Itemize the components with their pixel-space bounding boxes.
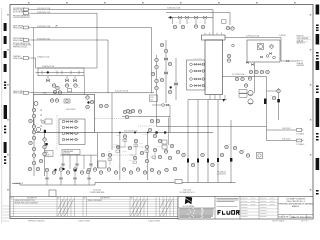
left instrument chain pipe 2	[44, 133, 46, 176]
chain box cluster	[42, 119, 52, 124]
revision table row lines	[10, 199, 178, 213]
launder weir ticks	[205, 33, 222, 36]
center cluster connect lines	[110, 138, 155, 165]
sheet text below	[272, 219, 309, 222]
manifold A small box	[68, 89, 72, 92]
wire vessel A inlet drop	[33, 28, 35, 95]
column cell CL-1 vessel	[205, 40, 223, 95]
scale and dwg number text	[279, 216, 313, 219]
manifold A drops	[48, 76, 75, 80]
fluor daniel emblem	[185, 197, 192, 204]
solid instrument square	[45, 143, 47, 145]
wire column feed drop	[212, 10, 214, 36]
svg-text:ISSUED FOR CONSTRUCTION: ISSUED FOR CONSTRUCTION	[15, 200, 35, 202]
overflow symbols	[162, 104, 169, 107]
drawing title text	[278, 197, 313, 208]
svg-text:LS: LS	[48, 157, 50, 159]
svg-text:PER SPEC 25-PS-001: PER SPEC 25-PS-001	[13, 46, 27, 48]
svg-text:LT 259: LT 259	[157, 146, 161, 148]
svg-text:SEE NOTE 3: SEE NOTE 3	[297, 43, 305, 45]
svg-text:SHT 1 OF 1: SHT 1 OF 1	[301, 220, 309, 222]
top manifold instruments	[173, 25, 205, 29]
title block dividers	[215, 197, 278, 220]
tails instruments	[235, 77, 244, 81]
wire tails line right	[223, 76, 267, 78]
left instrument chain pipe	[33, 115, 35, 176]
sump box	[49, 190, 56, 197]
wire drain header	[12, 184, 95, 186]
skid lower left valves	[246, 62, 253, 66]
bottom right connector label	[217, 170, 227, 175]
svg-text:FE 257: FE 257	[116, 135, 120, 137]
credits text smudges	[241, 198, 275, 217]
manifold A instruments	[52, 84, 77, 95]
instrument tag texts	[37, 22, 283, 169]
svg-text:P-06: P-06	[60, 166, 63, 168]
wire drain header 2	[95, 182, 236, 184]
svg-text:2507: 2507	[150, 99, 153, 101]
solid valve cluster dot	[87, 101, 89, 103]
sparger bank B frame	[187, 60, 206, 90]
title block outer	[178, 197, 313, 220]
drop valves	[46, 164, 92, 180]
svg-text:25-SP-2501: 25-SP-2501	[63, 153, 70, 155]
check valve solid	[223, 99, 226, 102]
skid compressor square	[258, 44, 264, 50]
svg-text:ISSUED FOR REVIEW: ISSUED FOR REVIEW	[88, 200, 103, 202]
svg-text:REVISED PER CLIENT COMMENTS: REVISED PER CLIENT COMMENTS	[15, 203, 38, 205]
top grid tick labels	[28, 2, 296, 3]
scale boxes	[283, 215, 307, 220]
check valve solid R1	[264, 99, 266, 105]
svg-text:HS: HS	[271, 95, 273, 97]
wire main cross line	[95, 132, 214, 134]
svg-text:COLUMN CELL NO. 4: COLUMN CELL NO. 4	[180, 192, 195, 194]
off-page connector IN-2	[13, 11, 50, 15]
svg-text:WV: WV	[199, 22, 201, 24]
svg-text:PIPING AND INSTRUMENTATION DIA: PIPING AND INSTRUMENTATION DIAGRAM	[278, 203, 313, 206]
off-page connector IN-1	[13, 7, 50, 12]
svg-text:FV: FV	[50, 83, 52, 85]
loop vertical	[168, 118, 170, 146]
chain diamonds	[41, 110, 42, 127]
svg-text:HV: HV	[204, 152, 206, 154]
column cell launder	[202, 35, 226, 40]
off-page connector OUT-5	[296, 139, 305, 146]
off-page connector IN-5	[13, 55, 49, 60]
skid lower symbols	[260, 53, 275, 59]
TK-1 internal instruments	[34, 99, 108, 108]
sheet left edge line	[1, 8, 3, 223]
lower right sample station	[246, 153, 262, 159]
svg-text:P-05: P-05	[146, 166, 149, 168]
left margin fold legend mini table	[3, 206, 10, 221]
revision table frame	[10, 197, 178, 217]
sparger outlet header	[60, 154, 97, 156]
off-page connector IN-4	[13, 37, 50, 42]
svg-text:HS 255: HS 255	[128, 160, 132, 162]
agitator box	[175, 180, 182, 184]
off-page connector OUT-1 text block	[297, 36, 311, 45]
dashed feed to bank A	[56, 115, 58, 150]
vertical pipe chain K1	[156, 55, 158, 127]
top manifold drops	[173, 18, 206, 25]
svg-text:BY: BY	[131, 198, 133, 200]
signal dashes center	[104, 126, 155, 155]
title lower divider	[278, 214, 313, 216]
chain K1 instruments	[151, 58, 158, 90]
left chain upper instruments	[32, 108, 36, 118]
svg-text:25BA-CD-3000-001-004: 25BA-CD-3000-001-004	[291, 216, 313, 219]
solid valve top	[169, 16, 171, 18]
svg-text:AREA 25: AREA 25	[292, 205, 299, 208]
junction square	[155, 131, 157, 133]
left margin microfilm bars	[4, 23, 7, 164]
bottom center instruments	[165, 167, 177, 172]
svg-text:PT 258: PT 258	[143, 134, 147, 136]
bottom drop instruments	[182, 145, 244, 167]
label box left	[45, 151, 53, 157]
credits row lines	[240, 200, 278, 216]
svg-text:25-RC-2515-6": 25-RC-2515-6"	[282, 128, 291, 130]
svg-text:FV 254: FV 254	[150, 157, 154, 159]
solid valve K2	[170, 86, 172, 88]
top manifold line	[168, 17, 213, 19]
junction dot 2	[164, 131, 166, 133]
off-page connector IN-3	[13, 25, 50, 30]
sparger outlet drops	[63, 155, 91, 169]
below frame reference text left	[28, 220, 45, 223]
svg-text:FV: FV	[173, 66, 175, 68]
instrument tag boxes	[108, 139, 155, 163]
sparger bank A frame	[59, 119, 85, 145]
top line 2	[166, 13, 230, 26]
svg-text:HV: HV	[214, 162, 216, 164]
junction dots on main line	[119, 132, 121, 134]
motor control box	[98, 161, 106, 168]
valve cluster below slurry line	[86, 96, 94, 109]
svg-text:NONE: NONE	[284, 217, 288, 219]
notice divider	[178, 207, 215, 209]
pump row bottom	[45, 168, 91, 175]
wire center verticals	[97, 93, 148, 180]
svg-text:HV: HV	[169, 54, 171, 56]
wire froth water line	[31, 40, 109, 93]
wire recycle connector line 2	[267, 140, 297, 142]
left chain instruments	[28, 119, 46, 171]
svg-text:P-07: P-07	[74, 166, 77, 168]
recirculation loop line	[122, 117, 170, 133]
pump drops to drain	[47, 172, 89, 186]
below frame reference text mid2	[148, 220, 160, 223]
black mark right cluster	[230, 158, 232, 162]
interlock boxes	[239, 90, 247, 98]
svg-text:BY: BY	[58, 198, 60, 200]
equipment title 2	[180, 190, 195, 194]
column bottom drops	[188, 100, 231, 184]
pump blob	[44, 130, 46, 133]
column bottom nozzles	[210, 95, 225, 100]
svg-text:25-SL: 25-SL	[150, 97, 154, 99]
manifold A right drop	[83, 76, 85, 95]
svg-text:25-DR-2521-8": 25-DR-2521-8"	[217, 173, 227, 175]
sparger feed valve	[174, 83, 177, 85]
svg-text:DESCRIPTION: DESCRIPTION	[27, 198, 37, 200]
revision table column lines	[14, 197, 174, 217]
sparger bank B rows	[190, 63, 205, 87]
wire transfer line	[157, 126, 267, 128]
column right instruments	[227, 44, 234, 62]
pump P-1	[248, 90, 253, 95]
svg-text:PIC: PIC	[78, 87, 80, 89]
bottom drop valves solid	[187, 158, 219, 163]
fluor cell divider text	[217, 205, 238, 208]
vent tick on wash line	[56, 25, 58, 27]
center instrument cluster	[101, 109, 162, 163]
right cluster verticals	[255, 63, 279, 141]
svg-text:P-01: P-01	[90, 166, 93, 168]
air skid package box	[247, 40, 280, 62]
wire feed line 2	[31, 12, 98, 14]
revision table header text	[11, 198, 133, 200]
svg-text:DESCRIPTION: DESCRIPTION	[100, 198, 110, 200]
wire vertical from dilution line	[96, 13, 98, 68]
junction dot 1	[134, 132, 136, 134]
right connector stub	[267, 90, 277, 92]
svg-text:NOTE 2: NOTE 2	[46, 155, 51, 157]
svg-text:WV: WV	[176, 22, 178, 24]
svg-text:FIC 251: FIC 251	[113, 144, 118, 146]
line label box	[150, 95, 158, 102]
loop instruments	[123, 110, 160, 123]
svg-text:WV: WV	[189, 22, 191, 24]
equipment title 1	[90, 190, 105, 194]
pump P-2	[248, 99, 253, 104]
pump solid marks	[55, 168, 77, 171]
control valve solid	[47, 71, 49, 73]
off-page connector IN-6	[13, 91, 30, 95]
overflow line	[152, 105, 170, 117]
fluor cell top text	[217, 198, 239, 202]
mid instrument row	[86, 168, 161, 175]
FLUOR logo	[218, 211, 239, 215]
right misc instruments	[244, 77, 280, 100]
wire feed line 1	[31, 9, 214, 11]
revision entries text	[15, 200, 103, 204]
svg-text:25-SL-2508-8": 25-SL-2508-8"	[66, 109, 76, 111]
manifold A header rect	[38, 68, 84, 76]
wire froth drop	[281, 38, 296, 62]
wire main slurry line	[31, 92, 155, 94]
underflow boxes	[162, 140, 167, 149]
svg-text:FEED SLURRY: FEED SLURRY	[13, 91, 23, 93]
right instrument row	[249, 70, 269, 74]
svg-text:25-FR-2513: 25-FR-2513	[279, 35, 286, 37]
svg-text:HV: HV	[194, 162, 196, 164]
sparger bank A label box	[62, 150, 80, 155]
svg-text:LIC 252: LIC 252	[122, 151, 126, 153]
svg-text:25-DR-2520-8": 25-DR-2520-8"	[14, 183, 24, 185]
wire froth line to connector	[225, 37, 281, 39]
off-page connector OUT-2 text block	[297, 60, 305, 68]
wire plant air to manifold header	[31, 58, 98, 68]
svg-text:HV: HV	[184, 152, 186, 154]
right margin microfilm bars	[316, 5, 320, 195]
skid instrument	[270, 45, 274, 49]
valve row A	[46, 79, 76, 81]
svg-text:25-TK-2501: 25-TK-2501	[93, 190, 101, 192]
signal dashed line	[95, 118, 130, 120]
below frame reference text mid1	[78, 220, 90, 223]
svg-text:PI 253: PI 253	[139, 143, 143, 145]
vertical pipe chain K2	[165, 40, 167, 103]
svg-text:25-RC-2516-6": 25-RC-2516-6"	[282, 138, 291, 140]
chain K2 symbols	[160, 43, 172, 94]
wire wash water line	[31, 28, 152, 94]
credits divider	[258, 197, 260, 220]
wire recycle connector line 1	[267, 129, 297, 131]
svg-text:FIC: FIC	[243, 149, 245, 151]
svg-text:25-FC-2504: 25-FC-2504	[183, 190, 191, 192]
notice paragraph smudge	[179, 208, 214, 218]
manifold A ticks	[42, 71, 79, 75]
svg-text:FROTH TO: FROTH TO	[297, 36, 305, 38]
column bottom header	[188, 99, 227, 101]
vessel TK-1 conditioner tank	[34, 95, 95, 133]
off-page connector OUT-4	[296, 129, 305, 136]
revision diagonal slashes	[58, 199, 173, 216]
sparger bank A valve rows	[62, 120, 79, 141]
manifold A center line	[36, 71, 85, 73]
side grid letters	[7, 14, 311, 191]
underflow instruments	[164, 144, 180, 160]
top manifold valves	[178, 16, 206, 18]
svg-text:P-04: P-04	[132, 166, 135, 168]
svg-text:P-03: P-03	[118, 166, 121, 168]
check valve solid R2	[277, 99, 280, 102]
svg-text:LIC: LIC	[228, 144, 230, 146]
pump circle	[36, 127, 40, 131]
sparger feed vertical	[175, 58, 177, 100]
froth drop valve	[287, 60, 289, 62]
svg-text:COLUMN FLOTATION: COLUMN FLOTATION	[286, 197, 306, 200]
top right instruments	[222, 20, 235, 31]
